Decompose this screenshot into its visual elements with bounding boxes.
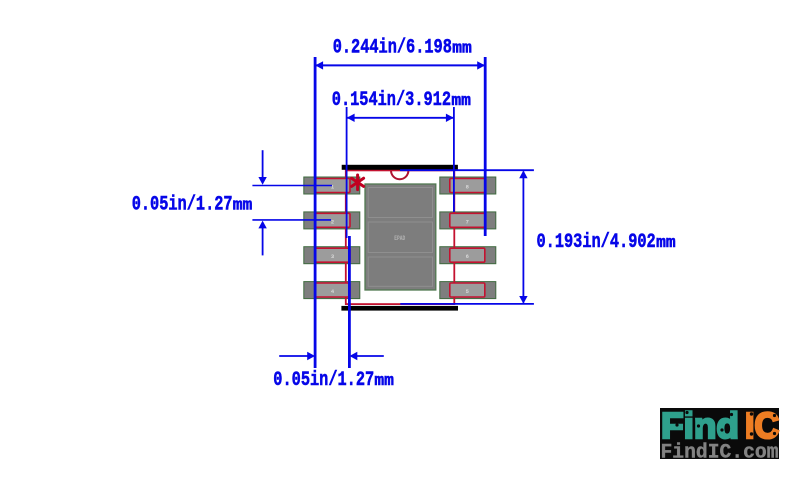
package outline: [346, 170, 455, 304]
svg-text:mm: mm: [656, 234, 676, 253]
svg-text:EPAD: EPAD: [394, 235, 405, 242]
pin contact R4: [315, 283, 350, 297]
pad P4 copper: [304, 282, 360, 299]
svg-text:IC: IC: [745, 405, 779, 446]
dimension D2 0.154in/3.912mm: [332, 89, 471, 238]
dimension D1 0.244in/6.198mm: [315, 37, 485, 369]
pad P6 copper: [440, 247, 496, 264]
pad P2 copper: [304, 212, 360, 229]
svg-text:mm: mm: [233, 197, 253, 216]
dimension D3 left 0.05in/1.27mm: [132, 150, 332, 255]
dimension D5 bottom 0.05in/1.27mm: [273, 236, 394, 392]
exposed pad EPAD: [365, 184, 436, 290]
svg-text:7: 7: [466, 218, 469, 225]
svg-text:0.154in/3.912: 0.154in/3.912: [332, 89, 451, 112]
pin-1 marker asterisk: [352, 175, 364, 190]
bottom courtyard bar: [341, 306, 458, 311]
top courtyard bar: [342, 165, 458, 170]
svg-text:mm: mm: [374, 372, 394, 391]
pad P8 copper: [440, 177, 496, 194]
svg-text:FindIC.com: FindIC.com: [661, 442, 779, 465]
pin contact R6: [450, 248, 485, 262]
svg-text:mm: mm: [452, 40, 472, 59]
pin contact R7: [450, 213, 485, 227]
pin contact R1: [315, 179, 350, 193]
pin-1 orientation notch: [391, 171, 408, 180]
dimension D4 right 0.193in/4.902mm: [400, 170, 676, 304]
svg-text:0.193in/4.902: 0.193in/4.902: [537, 231, 656, 254]
svg-text:0.244in/6.198: 0.244in/6.198: [333, 37, 452, 60]
svg-text:mm: mm: [451, 92, 471, 111]
svg-text:0.05in/1.27: 0.05in/1.27: [132, 194, 233, 217]
svg-text:2: 2: [331, 218, 334, 225]
pad P3 copper: [304, 247, 360, 264]
pin contact R3: [315, 248, 350, 262]
pin contact R2: [315, 213, 350, 227]
pad P7 copper: [440, 212, 496, 229]
svg-text:0.05in/1.27: 0.05in/1.27: [273, 369, 374, 392]
pad P1 copper: [304, 177, 360, 194]
pad P5 copper: [440, 282, 496, 299]
pin contact R8: [450, 179, 485, 193]
svg-text:6: 6: [466, 253, 469, 260]
pin contact R5: [450, 283, 485, 297]
FindIC logo: [660, 405, 779, 465]
